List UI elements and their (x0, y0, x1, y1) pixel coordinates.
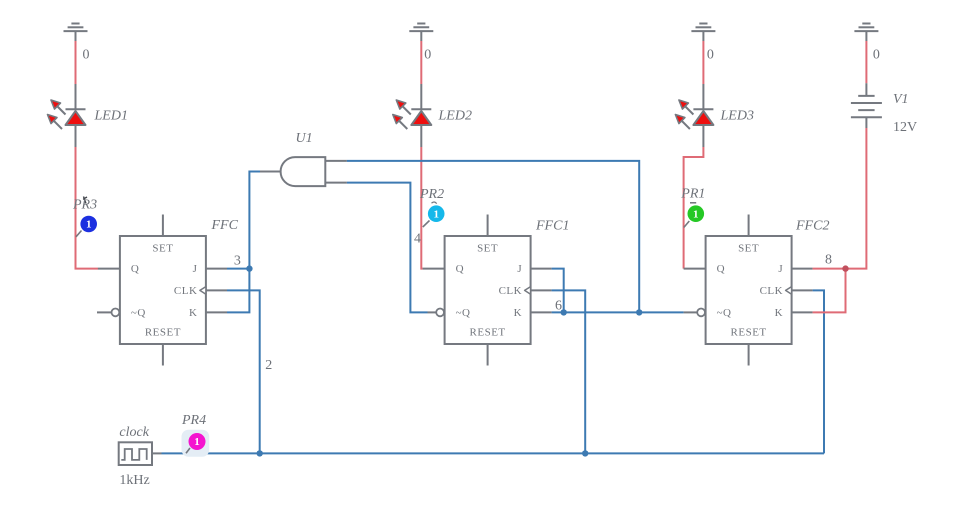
probe PR4 (182, 430, 210, 457)
wire LED2 to FFC1 Q (net 4) (421, 147, 422, 269)
wire ground to LED1 (75, 41, 77, 84)
svg-text:3: 3 (234, 254, 241, 269)
flip-flop FFC2 (684, 215, 813, 366)
svg-text:LED3: LED3 (720, 109, 754, 124)
svg-text:CLK: CLK (760, 285, 784, 297)
svg-text:1: 1 (194, 436, 200, 448)
wire ground to LED3 (702, 41, 704, 84)
svg-text:FFC2: FFC2 (795, 219, 829, 234)
wire net 8 to FFC2 K (813, 269, 846, 313)
svg-text:RESET: RESET (145, 327, 181, 339)
svg-text:RESET: RESET (731, 327, 767, 339)
clock source (119, 442, 162, 465)
wire ground to LED2 (420, 41, 422, 84)
wire FFC1 CLK down to clock bus (552, 290, 586, 453)
svg-text:J: J (193, 263, 198, 275)
svg-text:~Q: ~Q (717, 307, 732, 319)
wire FFC2 CLK to clock bus (813, 290, 824, 453)
flip-flop FFC (97, 215, 227, 366)
svg-text:1: 1 (433, 208, 439, 220)
svg-text:SET: SET (738, 243, 759, 255)
svg-text:V1: V1 (893, 92, 909, 107)
svg-text:PR1: PR1 (680, 186, 705, 201)
wire U1 bottom input to FFC1 ~Q (347, 183, 428, 313)
probe PR2 (423, 202, 445, 227)
op U1 AND gate (mirrored) (260, 157, 347, 186)
wire FFC1 K along net 6 to FFC2 ~Q (552, 311, 684, 313)
svg-text:LED2: LED2 (438, 109, 472, 124)
svg-text:~Q: ~Q (456, 307, 471, 319)
svg-text:SET: SET (477, 243, 498, 255)
wire net 8 to V1 (846, 128, 867, 269)
svg-text:K: K (775, 307, 783, 319)
svg-text:12V: 12V (893, 120, 917, 135)
svg-text:PR3: PR3 (72, 198, 97, 213)
svg-text:J: J (778, 263, 783, 275)
flip-flop FFC1 (423, 215, 552, 366)
svg-text:Q: Q (456, 263, 464, 275)
svg-text:clock: clock (119, 425, 149, 440)
svg-text:Q: Q (131, 263, 139, 275)
junction clock bus at FFC CLK (257, 450, 263, 456)
svg-text:0: 0 (83, 48, 90, 63)
wire LED3 to FFC2 Q (684, 147, 704, 269)
wire clock bus (162, 452, 825, 454)
svg-text:6: 6 (555, 299, 562, 314)
ground G2 (LED2 column) (409, 24, 433, 42)
ground G3 (LED3 column) (691, 24, 715, 42)
svg-text:U1: U1 (296, 131, 313, 146)
svg-text:4: 4 (414, 232, 421, 247)
svg-text:0: 0 (424, 48, 431, 63)
svg-text:K: K (189, 307, 197, 319)
svg-text:CLK: CLK (174, 285, 198, 297)
svg-text:PR2: PR2 (419, 187, 444, 202)
wire LED1 to FFC Q (76, 147, 99, 269)
svg-text:PR4: PR4 (181, 413, 206, 428)
svg-text:~Q: ~Q (131, 307, 146, 319)
probe PR3 (76, 197, 97, 237)
svg-text:FFC: FFC (211, 218, 239, 233)
svg-text:0: 0 (873, 48, 880, 63)
svg-text:CLK: CLK (499, 285, 523, 297)
wire FFC1 J to K (net 6) (552, 269, 564, 313)
wire FFC J to node (227, 268, 249, 270)
probe PR1 (684, 203, 704, 228)
junction clock bus at FFC1 CLK (582, 450, 588, 456)
wire FFC2 J to net 8 (813, 268, 846, 270)
svg-text:1: 1 (693, 208, 699, 220)
junction node 3 (246, 265, 252, 271)
svg-text:1kHz: 1kHz (119, 473, 149, 488)
svg-text:1: 1 (86, 219, 92, 231)
svg-text:RESET: RESET (470, 327, 506, 339)
LED LED1 (48, 84, 86, 147)
wire U1 top input to node 6 (347, 161, 639, 313)
wire FFC CLK down (net 2) (227, 290, 260, 453)
svg-text:2: 2 (265, 358, 272, 373)
svg-text:0: 0 (707, 48, 714, 63)
svg-text:Q: Q (717, 263, 725, 275)
svg-text:8: 8 (825, 253, 832, 268)
junction net 8 (842, 265, 848, 271)
svg-text:J: J (517, 263, 522, 275)
battery V1 (851, 83, 882, 128)
ground G1 (LED1 column) (64, 24, 88, 42)
junction net 6 at U1 input drop (636, 309, 642, 315)
LED LED2 (393, 84, 432, 147)
ground G4 (V1 column) (854, 24, 878, 42)
wire ground to V1 (865, 41, 867, 83)
junction net 6 at FFC1 K (561, 309, 567, 315)
wire U1 output to FFC J/K (227, 172, 260, 313)
svg-text:K: K (514, 307, 522, 319)
svg-text:LED1: LED1 (94, 109, 128, 124)
LED LED3 (675, 84, 713, 147)
svg-text:SET: SET (152, 243, 173, 255)
svg-text:FFC1: FFC1 (535, 219, 569, 234)
